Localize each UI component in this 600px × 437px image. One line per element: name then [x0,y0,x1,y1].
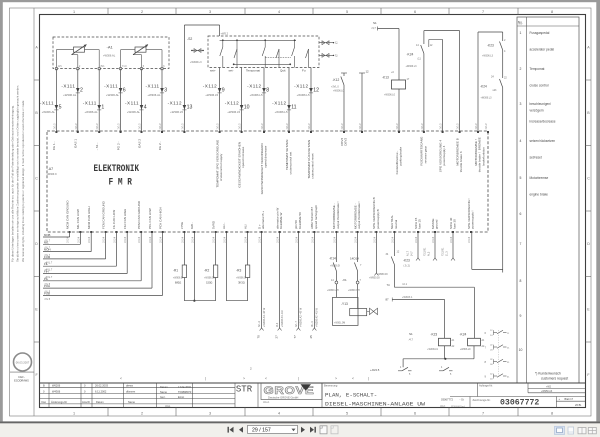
accelerator pedal unit A1 (dashed enclosure) [53,37,169,69]
svg-text:Deutsche GROVE GmbH: Deutsche GROVE GmbH [268,395,298,399]
svg-text:12: 12 [366,70,370,74]
svg-text:|: | [368,377,369,381]
svg-text:-X111: -X111 [61,84,75,89]
valve symbol [370,308,378,314]
svg-text:+W306.5I: +W306.5I [330,266,340,268]
connector -X111 pin 4 [140,105,144,109]
svg-text:2: 2 [141,412,143,416]
wire S2 out 8 [263,68,265,133]
svg-text:1V1/2: 1V1/2 [240,123,242,130]
svg-text:+W306.A4 -43 W: +W306.A4 -43 W [263,307,266,327]
svg-text:5: 5 [346,412,348,416]
svg-text:-X111: -X111 [146,84,160,89]
A1 pin 5 [140,68,142,70]
A1 pin 4 [120,68,122,70]
wire S2 out 10 [241,68,243,133]
R1-R2 parallel join [184,300,215,302]
svg-text:GAS 1: GAS 1 [74,139,78,148]
svg-text:+W306.AL: +W306.AL [127,110,141,114]
FMR bottom pin x=247.6 [247,231,249,233]
svg-text:MOB: MOB [44,233,51,237]
svg-text:PIL: PIL [44,277,49,281]
svg-text:fuse 30: fuse 30 [453,219,457,229]
svg-text:1V1/2: 1V1/2 [476,123,478,130]
svg-text:1V1/2: 1V1/2 [458,123,460,130]
svg-text:STR: STR [236,385,253,395]
svg-text:Tempomat: Tempomat [530,67,545,71]
contact -K23 (lower) [393,232,395,256]
wire S1 to K13 [398,29,400,81]
svg-text:-K24: -K24 [460,333,467,337]
svg-text:1V1/2: 1V1/2 [397,123,399,130]
net 74 horizontal [394,286,474,288]
svg-text:3K3Ω: 3K3Ω [238,281,245,285]
svg-text:ALI -: ALI - [222,223,226,229]
svg-text:FIL CAN LOW: FIL CAN LOW [112,210,116,229]
svg-text:5: 5 [520,176,522,180]
svg-text:Ursp.: Ursp. [165,405,171,408]
FMR top pin x=120.6 [120,131,122,133]
svg-text:/VL.7: /VL.7 [295,321,298,327]
svg-text:set+: set+ [210,69,216,73]
wire 12 to FMR [361,73,363,132]
svg-text:|: | [205,377,206,381]
wire bridge right leg [459,31,461,132]
svg-text:Für diese Unterlagen behalten: Für diese Unterlagen behalten wir uns al… [11,105,15,262]
svg-text:6.11.2002: 6.11.2002 [95,389,107,393]
svg-text:7: 7 [520,242,522,246]
svg-text:1V1/2: 1V1/2 [360,123,362,130]
svg-text:-S2: -S2 [187,37,192,41]
FMR top pin x=241.6 [241,131,243,133]
reference ruler ticks and numbers [107,8,109,15]
svg-text:D: D [587,242,590,246]
svg-text:06.03.2007: 06.03.2007 [16,360,30,364]
svg-text:>: > [335,377,337,381]
connector -X112 pin 10 [240,105,244,109]
svg-text:25: 25 [309,335,313,339]
FMR bottom pin x=279.6 [279,231,281,233]
svg-text:ALI: ALI [243,224,247,229]
svg-text:/VL.4: /VL.4 [258,321,261,327]
svg-text:+W306.42 -41 W: +W306.42 -41 W [316,308,319,327]
svg-text:B: B [43,384,45,388]
svg-text:+W950.03: +W950.03 [369,278,380,280]
copyright column separator [33,8,35,416]
FMR top pin x=459.6 [459,131,461,133]
connector -X112 pin 11 [287,105,291,109]
svg-text:8: 8 [551,412,553,416]
svg-text:POB: POB [44,291,50,295]
svg-text:+W950.03: +W950.03 [377,274,388,276]
svg-text:9: 9 [520,314,522,318]
wire to net MOB [69,232,71,237]
FMR top pin x=311.0 [310,131,312,133]
connector -X111 pin 2 [76,88,80,92]
svg-text:FOM: FOM [44,255,51,259]
svg-text:Motorbremse: Motorbremse [530,176,549,180]
stub wire terminal 12 [359,72,365,74]
svg-text:2: 2 [141,10,143,14]
wire A1 pin 3 [161,69,163,132]
stub wire 418 [417,232,419,258]
svg-text:POH: POH [44,284,50,288]
svg-text:*) Kundenwunsch: *) Kundenwunsch [535,371,561,375]
U link left leg [471,232,473,269]
svg-text:1V1/2: 1V1/2 [182,123,184,130]
svg-text:-X112: -X112 [294,84,308,89]
svg-text:-X111: -X111 [83,101,97,106]
S2 linkage lines [234,63,291,65]
FMR bottom pin x=91.2 [90,231,92,233]
svg-text:Datum: Datum [160,385,168,389]
FMR bottom pin x=471 [470,231,472,233]
FMR bottom pin x=453 [452,231,454,233]
svg-text:+J0/4.5: +J0/4.5 [370,368,380,372]
wire bridge2 left leg [477,32,479,132]
svg-text:cruisecontrol supply: cruisecontrol supply [219,153,223,181]
svg-text:MIL CAN LOW: MIL CAN LOW [76,209,80,229]
relay coil -K13 [392,80,406,89]
svg-text:1V1/2: 1V1/2 [422,123,424,130]
svg-text:3: 3 [209,412,211,416]
svg-text:+W306.L5: +W306.L5 [205,93,218,97]
svg-text:Name: Name [160,390,167,394]
svg-text:setzen/rücksetzen: setzen/rücksetzen [530,139,556,143]
svg-text:1V1/2: 1V1/2 [54,123,56,130]
svg-text:11: 11 [291,105,296,111]
svg-text:03067772: 03067772 [441,398,453,402]
potentiometer A1-a [74,47,85,52]
wire A1 pin 6 [120,69,122,132]
svg-text:+W306.AL: +W306.AL [147,93,161,97]
wire to net MIL [79,232,81,244]
svg-text:26 Bl.: 26 Bl. [575,403,582,407]
svg-text:reverse gear: reverse gear [424,146,428,163]
svg-text:MOH: MOH [44,248,51,252]
date stamp [14,353,32,371]
legend table (right) [517,17,579,383]
svg-text:Y1.0: Y1.0 [122,66,127,68]
FMR bottom pin x=376.4 [375,231,377,233]
svg-text:+W306.AL: +W306.AL [85,110,99,114]
svg-text:PCL CAN LOW: PCL CAN LOW [148,208,152,229]
svg-text:-X1: -X1 [342,278,347,282]
connector -X112 pin 9 [218,88,222,92]
view mode icons (right) [555,426,565,434]
svg-text:-K23: -K23 [487,44,494,48]
svg-text:powersupply !: powersupply ! [471,210,475,229]
svg-text:PCH CAN HIGH: PCH CAN HIGH [158,207,162,229]
svg-text:+W306.L9: +W306.L9 [427,349,438,351]
svg-text:-K24: -K24 [407,53,414,57]
svg-text:(.9,.2): (.9,.2) [404,265,410,268]
svg-text:3: 3 [164,88,167,94]
svg-text:C: C [35,177,38,181]
svg-text:70: 70 [256,335,260,339]
svg-text:brakefunktion: brakefunktion [481,147,485,166]
svg-text:1V1/2: 1V1/2 [309,123,311,130]
svg-text:/4,7: /4,7 [409,339,414,342]
svg-text:-X112: -X112 [225,101,239,106]
svg-text:Zeichnungs-Nr.: Zeichnungs-Nr. [473,398,491,402]
svg-text:set-: set- [229,69,234,73]
svg-text:fuse 15: fuse 15 [418,219,422,229]
svg-text:+W306.5H: +W306.5H [204,278,215,280]
svg-text:J4.7: J4.7 [411,251,414,256]
svg-text:+W306.1I: +W306.1I [236,278,246,280]
svg-text:+W306.34 -41 I: +W306.34 -41 I [281,310,284,327]
FMR bottom pin x=80.4 [79,231,81,233]
svg-text:Ernst: Ernst [178,395,184,399]
svg-text:cruise control: cruise control [530,84,549,88]
long wire 27 [279,232,281,328]
svg-text:We reserve all rights, includi: We reserve all rights, including those r… [21,100,25,262]
svg-text:/4,7: /4,7 [372,26,377,30]
FMR bottom pin x=105.6 [105,231,107,233]
wire S1 horizontal [378,28,400,30]
svg-text:4: 4 [278,412,280,416]
svg-text:FIL: FIL [44,262,48,266]
FMR bottom pin x=116.4 [115,231,117,233]
svg-text:1V1/2: 1V1/2 [119,123,121,130]
svg-text:/3.4: /3.4 [276,322,279,327]
svg-text:PLAN, E-SCHALT-: PLAN, E-SCHALT- [325,391,377,398]
FMR bottom pin x=357.6 [357,231,359,233]
svg-text:+W306.AL: +W306.AL [103,54,116,58]
svg-text:-K23: -K23 [403,259,410,263]
svg-text:8: 8 [551,10,553,14]
svg-text:output throttlebrake !: output throttlebrake ! [357,201,361,229]
connector -X111 pin 6 [119,88,123,92]
svg-text:beschleunigen/: beschleunigen/ [530,102,552,106]
wire K24-NO to FMR [423,54,425,133]
FMR top pin x=162.0 [161,131,163,133]
svg-text:1: 1 [101,105,104,111]
svg-text:FIH CAN HIGH: FIH CAN HIGH [123,209,127,229]
svg-text:+W306.L0: +W306.L0 [333,90,345,93]
svg-text:6: 6 [520,212,522,216]
wire to K14 at 336.4 [335,232,337,262]
wire to net MOH [90,232,92,252]
svg-text:4: 4 [278,10,280,14]
svg-text:+W306.AL: +W306.AL [106,93,120,97]
svg-text:+W306.L9: +W306.L9 [460,349,471,351]
svg-text:+3VL.0: +3VL.0 [331,86,339,89]
svg-text:Fussgaspedal: Fussgaspedal [530,31,550,35]
svg-text:+W5.2: +W5.2 [221,32,229,36]
svg-text:TF0898973: TF0898973 [178,390,192,394]
svg-text:4: 4 [144,105,147,111]
svg-text:5: 5 [59,105,62,111]
svg-text:+W30C.AH: +W30C.AH [327,289,339,292]
svg-text:-X111: -X111 [125,101,139,106]
svg-text:-K23: -K23 [430,333,437,337]
FMR top pin x=362 [361,131,363,133]
svg-text:<: < [265,377,267,381]
svg-text:1: 1 [73,10,75,14]
svg-text:-K13: -K13 [382,76,389,80]
svg-text:27: 27 [274,335,278,339]
svg-text:-R1: -R1 [173,269,178,273]
svg-text:MCM CAN HIGH: MCM CAN HIGH [87,206,91,229]
svg-text:F M R: F M R [109,177,133,188]
svg-text:1V1/2: 1V1/2 [287,123,289,130]
stub wire +W950.03 [375,232,377,273]
svg-text:ELEKTRONIK: ELEKTRONIK [94,164,140,175]
svg-text:2: 2 [520,67,522,71]
svg-text:6: 6 [123,88,126,94]
svg-text:S1: S1 [373,21,377,25]
legend header divider [517,25,579,27]
wire to K14 at 357.6 [357,232,359,262]
svg-text:10: 10 [519,348,523,352]
resistor -R1 [183,232,185,265]
wire A1 pin 5 [55,69,57,132]
contact -K12 [341,72,347,74]
FMR top pin x=141.5 [141,131,143,133]
svg-text:Gez.: Gez. [160,395,166,399]
coil return bus [403,358,474,360]
svg-text:7: 7 [482,412,484,416]
svg-text:- St: - St [460,397,464,401]
wire to net FIH [126,232,128,274]
svg-text:+W306.N: +W306.N [47,173,57,176]
page number box [248,425,298,433]
svg-text:-X111: -X111 [40,101,54,106]
resistor -R2 [215,232,217,265]
svg-text:customers request: customers request [541,376,568,380]
svg-text:1V1/2: 1V1/2 [486,123,488,130]
FMR bottom pin x=261.6 [261,231,263,233]
svg-text:ground: ground [435,219,439,229]
svg-text:Datum: Datum [96,400,104,404]
svg-text:-K14: -K14 [329,257,336,261]
svg-text:- S1 -: - S1 - [95,143,99,151]
svg-text:W6206: W6206 [52,384,61,388]
svg-text:87: 87 [386,298,390,302]
svg-text:1: 1 [520,31,522,35]
svg-text:+W306.L5: +W306.L5 [250,93,263,97]
svg-text:3: 3 [209,10,211,14]
FMR bottom pin x=184.4 [183,231,185,233]
svg-text:74: 74 [387,283,391,287]
svg-text:1V1/2: 1V1/2 [76,123,78,130]
long wire 70 [261,232,263,328]
svg-text:9: 9 [222,88,225,94]
connector -X112 pin 13 [183,105,187,109]
svg-text:increase/decrease: increase/decrease [530,119,556,123]
svg-text:+W30C.HH: +W30C.HH [348,290,360,292]
svg-text:Urs.d.: Urs.d. [263,401,270,404]
FMR bottom pin x=127.2 [126,231,128,233]
FMR top pin x=442.6 [442,131,444,133]
svg-text:speed tachograph: speed tachograph [314,205,318,229]
svg-text:8: 8 [520,279,522,283]
potentiometer A1-b [135,47,146,52]
svg-text:Sie dürfen ohne unsere vorheri: Sie dürfen ohne unsere vorherige schrift… [16,85,20,262]
FMR bottom pin x=314.4 [313,231,315,233]
FMR top pin x=344 [343,131,345,133]
svg-text:s23: s23 [493,89,498,92]
svg-text:03067772: 03067772 [500,398,539,407]
connector -X111 pin 3 [160,88,164,92]
svg-text:FIH: FIH [44,270,49,274]
FMR top pin x=478 [477,131,479,133]
svg-text:/VL.5: /VL.5 [45,298,51,301]
wire S2 out 9 [219,68,221,133]
FMR bottom pin x=394.4 [393,231,395,233]
A1 pin 6 [161,68,163,70]
svg-text:-Y13: -Y13 [341,302,348,306]
svg-text:6: 6 [414,412,416,416]
FMR bottom pin x=141.2 [140,231,142,233]
svg-text:12: 12 [313,88,319,94]
toolbar navigation [230,427,234,433]
wire A1 pin 1 [98,69,100,132]
svg-text:|: | [298,377,299,381]
svg-text:+W306.AL: +W306.AL [42,110,56,114]
svg-text:1: 1 [73,412,75,416]
FMR top pin x=289.0 [288,131,290,133]
CAD cell [10,371,34,373]
svg-text:-X112: -X112 [272,101,286,106]
svg-text:+W2: +W2 [546,386,552,389]
wire to net POB [162,232,164,295]
wire S2 out 11 [288,68,290,133]
wire K12 to FMR [343,85,345,132]
FMR top pin x=184.4 [183,131,185,133]
svg-text:neutral: neutral [394,219,398,229]
FMR bottom pin x=194.4 [193,231,195,233]
svg-text:<: < [120,377,122,381]
svg-text:Dat.: Dat. [42,400,47,404]
svg-text:drews: drews [126,384,134,388]
svg-text:powersupply 4: powersupply 4 [442,145,446,165]
svg-text:J1.3: J1.3 [446,251,449,256]
FMR top pin x=56.4 [55,131,57,133]
svg-text:-X111: -X111 [104,84,118,89]
svg-text:+W306.A2 -43 W: +W306.A2 -43 W [300,307,303,327]
switch unit S2 (dashed enclosure) [208,36,319,68]
valve -Y13 [333,297,359,325]
svg-text:+W306.L5: +W306.L5 [227,110,240,114]
S2 internal switches [222,40,224,47]
svg-text:cruisecontrol reset: cruisecontrol reset [311,153,315,178]
svg-text:alternator B +: alternator B + [261,211,265,229]
svg-text:-X112: -X112 [203,84,217,89]
svg-text:-R3: -R3 [236,269,241,273]
FMR top pin x=399 [398,131,400,133]
connector -X111 pin 1 [97,105,101,109]
svg-text:S1: S1 [409,332,413,336]
svg-text:-K24: -K24 [480,85,487,89]
wire to net PIL [140,232,142,281]
svg-text:output throttlebrake !: output throttlebrake ! [336,201,340,229]
svg-text:Tempomat: Tempomat [246,69,260,73]
svg-text:C: C [587,177,590,181]
svg-text:CAD -: CAD - [18,376,25,379]
svg-text:MIL: MIL [44,240,49,244]
svg-text:-A1: -A1 [107,45,114,50]
svg-text:Anschl: Anschl [82,400,90,404]
svg-text:dfonzen: dfonzen [126,389,136,393]
svg-text:Fu: Fu [302,69,306,73]
svg-text:ECODRAWS: ECODRAWS [14,380,29,383]
svg-text:Benennung: Benennung [324,384,338,388]
svg-text:10: 10 [244,105,250,111]
history page icons [320,426,327,434]
